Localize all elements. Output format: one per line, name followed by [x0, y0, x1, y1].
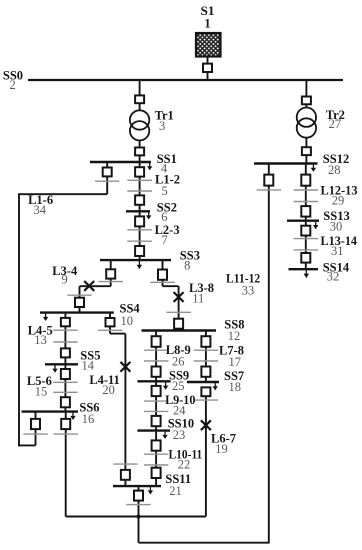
svg-text:33: 33	[242, 284, 255, 298]
line tick L6-7 b	[194, 399, 218, 401]
line tick L3-8 a	[150, 281, 175, 283]
wire L13-14	[305, 235, 307, 253]
switch L4-11 at SS11	[121, 470, 130, 480]
svg-text:23: 23	[173, 428, 186, 442]
wire L3-4 vertical	[79, 286, 81, 298]
wire L3-4 horizontal	[80, 285, 111, 287]
wire SS11 to L11-12	[138, 487, 140, 491]
wire to bus SS13	[305, 217, 307, 221]
wire L4-5	[64, 326, 66, 349]
switch Tr2 upper	[302, 97, 311, 105]
wire to Tr1	[139, 103, 141, 111]
switch L12-13 at SS12	[301, 175, 310, 186]
line tick L13-14 a	[294, 238, 319, 240]
svg-text:16: 16	[82, 412, 95, 426]
line tick L1-6 b	[23, 433, 48, 435]
svg-text:27: 27	[329, 117, 342, 131]
switch L6-7 at SS7	[201, 387, 210, 396]
svg-text:9: 9	[61, 273, 67, 287]
wire SS8 to L7-8	[205, 332, 207, 337]
wire SS1 to L1-2	[139, 163, 141, 168]
bus SS6	[22, 410, 79, 412]
wire SS12 to L12-13	[305, 165, 307, 176]
svg-text:18: 18	[228, 380, 241, 394]
svg-text:21: 21	[169, 484, 182, 498]
switch L5-6 at SS5	[61, 369, 70, 379]
switch L2-3 at SS3	[135, 246, 144, 256]
svg-text:32: 32	[327, 269, 340, 283]
line tick L2-3 b	[127, 240, 152, 242]
line tick L3-4 b	[67, 294, 92, 296]
wire L4-11 vertical	[124, 334, 126, 487]
bus SS3	[100, 259, 171, 261]
bus SS5	[45, 363, 78, 365]
load arrow SS5	[52, 365, 57, 372]
svg-text:12: 12	[228, 329, 241, 343]
svg-text:26: 26	[172, 355, 185, 369]
svg-text:29: 29	[332, 193, 345, 207]
switch L1-2 at SS1	[135, 167, 144, 176]
svg-text:28: 28	[328, 163, 341, 177]
wire SS10 to L10-11	[155, 432, 157, 441]
switch L9-10 at SS9	[152, 386, 161, 396]
bus SS14	[289, 268, 319, 270]
wire SS4 to L4-11	[109, 314, 111, 319]
bus SS13	[287, 219, 319, 221]
wire SS13 to L13-14	[305, 222, 307, 227]
svg-text:20: 20	[102, 383, 115, 397]
svg-text:11: 11	[192, 292, 204, 306]
line tick L3-8 b	[166, 311, 191, 313]
bus SS2	[126, 210, 150, 212]
svg-text:1: 1	[204, 17, 210, 31]
wire L6-7 down from SS6	[65, 429, 67, 516]
load arrow SS4	[43, 314, 48, 321]
switch L8-9 at SS9	[152, 367, 161, 377]
switch L13-14 at SS13	[301, 226, 310, 236]
wire switch to bus SS0	[207, 71, 209, 80]
switch L11-12 at SS12	[264, 175, 273, 186]
wire L4-11 horizontal	[110, 333, 125, 335]
line tick L7-8 a	[194, 349, 218, 351]
svg-text:17: 17	[228, 355, 241, 369]
wire L10-11	[155, 451, 157, 469]
line tick L8-9 a	[144, 349, 168, 351]
wire SS5 to L5-6	[64, 365, 66, 369]
svg-text:30: 30	[330, 219, 343, 233]
svg-text:7: 7	[161, 233, 167, 247]
line tick L6-7 a	[54, 433, 79, 435]
wire L1-6 left vertical	[18, 193, 20, 446]
wire S1 to switch	[207, 57, 209, 65]
wire SS4 to L4-5	[64, 314, 66, 319]
line tick L4-5 a	[53, 329, 77, 331]
switch L13-14 at SS14	[301, 253, 310, 263]
line tick L2-3 a	[127, 229, 152, 231]
switch L4-11 at SS4	[106, 318, 115, 326]
switch L4-5 at SS5	[61, 348, 70, 357]
switch L3-4 at SS4	[75, 298, 84, 307]
line tick L4-11 b	[113, 463, 138, 465]
line tick L1-2 b	[127, 190, 152, 192]
switch S1-SS0	[203, 64, 212, 72]
wire L1-6 up to SS6	[35, 413, 37, 446]
bus SS4	[40, 311, 114, 313]
line tick L4-5 b	[53, 341, 77, 343]
wire Tr2 to switch	[305, 138, 307, 148]
svg-text:3: 3	[159, 119, 165, 133]
load arrow SS11	[148, 487, 153, 494]
wire L1-6 horizontal bottom	[18, 444, 35, 446]
line tick L4-11 a	[98, 329, 122, 331]
wire L4-11 down	[109, 326, 111, 333]
switch L5-6 at SS6	[61, 397, 70, 407]
switch L3-4 at SS3	[106, 269, 115, 278]
load arrow SS1	[147, 163, 152, 170]
bus SS0	[28, 79, 343, 81]
wire to bus SS9	[155, 377, 157, 382]
svg-text:8: 8	[184, 258, 190, 272]
open switch X L3-8	[174, 292, 184, 302]
wire L3-8 horizontal	[163, 285, 179, 287]
switch L4-5 at SS4	[61, 318, 70, 326]
wire SS6 to L6-7	[65, 413, 67, 420]
svg-text:31: 31	[331, 244, 344, 258]
wire to bus SS14	[305, 263, 307, 270]
bus SS12	[254, 162, 318, 164]
wire to bus SS3	[139, 256, 141, 260]
wire L11-12 right vertical	[268, 185, 270, 544]
svg-text:6: 6	[161, 210, 167, 224]
switch L1-6 at SS1	[103, 168, 112, 177]
switch L10-11 at SS10	[152, 440, 161, 450]
wire SS3 to L3-8	[162, 261, 164, 270]
load arrow SS9	[163, 382, 168, 389]
wire L6-7 horizontal	[66, 516, 206, 518]
line tick L1-2 a	[127, 179, 152, 181]
wire switch to bus SS12	[305, 155, 307, 163]
open switch X L3-4	[84, 281, 94, 291]
svg-text:14: 14	[81, 358, 94, 372]
line tick L5-6 a	[53, 381, 77, 383]
line tick L9-10 a	[144, 400, 168, 402]
switch L2-3 at SS2	[135, 216, 144, 226]
load arrow SS12	[311, 165, 316, 172]
switch L12-13 at SS13	[301, 206, 310, 217]
load arrow SS13	[313, 222, 318, 230]
wire L1-2	[139, 177, 141, 196]
open switch X L4-11	[120, 362, 130, 372]
wire SS3 to L3-4	[110, 261, 112, 270]
open switch X L6-7	[201, 420, 211, 430]
svg-text:2: 2	[9, 78, 15, 92]
wire to bus SS2	[139, 205, 141, 212]
line tick L13-14 b	[294, 249, 319, 251]
wire switch to bus SS12	[268, 164, 270, 175]
svg-text:15: 15	[35, 384, 48, 398]
line tick L11-12 a	[126, 504, 151, 506]
bus SS7	[187, 381, 219, 383]
load arrow SS14	[304, 270, 309, 278]
svg-text:25: 25	[172, 379, 185, 393]
svg-text:24: 24	[173, 403, 186, 417]
load arrow SS10	[162, 432, 167, 439]
switch Tr1 upper	[135, 95, 144, 103]
wire L9-10	[155, 396, 157, 416]
switch Tr1 lower	[135, 148, 144, 156]
wire L5-6	[64, 379, 66, 398]
line tick L9-10 b	[144, 410, 168, 412]
switch L3-8 at SS3	[158, 270, 167, 280]
junction node SS6-SS7-SS11 lines	[136, 514, 140, 518]
wire L8-9	[155, 347, 157, 367]
wire SS9 to L9-10	[155, 382, 157, 386]
switch L7-8 at SS8	[201, 336, 210, 347]
wire L12-13	[305, 186, 307, 207]
switch L7-8 at SS7	[201, 367, 210, 377]
wire Tr1 to switch	[139, 141, 141, 149]
switch L1-2 at SS2	[135, 195, 144, 204]
bus SS1	[90, 161, 151, 163]
line tick L8-9 b	[144, 360, 168, 362]
switch L6-7 at SS6	[61, 419, 70, 429]
wire to bus SS5	[64, 357, 66, 364]
wire switch to bus SS1	[139, 155, 141, 162]
load arrow SS3	[137, 261, 142, 269]
load arrow SS6	[70, 413, 75, 420]
load arrow SS2	[146, 212, 151, 220]
transformer Tr1	[130, 110, 149, 140]
wire to bus SS4	[79, 307, 81, 313]
load arrow SS7	[213, 383, 218, 390]
line tick L5-6 b	[53, 391, 77, 393]
line tick L11-12 b	[257, 189, 282, 191]
wire L11-12 horizontal bottom	[139, 542, 269, 544]
line tick L12-13 b	[294, 201, 319, 203]
wire to bus SS6	[64, 407, 66, 411]
wire L11-12 down	[138, 501, 140, 543]
line tick L1-6 a	[95, 180, 119, 182]
switch L3-8 at SS8	[174, 319, 183, 329]
bus SS9	[137, 380, 170, 382]
switch L8-9 at SS8	[152, 336, 161, 347]
wire L6-7 up to SS7	[205, 396, 207, 517]
wire to Tr2	[305, 104, 307, 108]
transformer Tr2	[297, 108, 316, 138]
wire SS0 to Tr2	[305, 80, 307, 97]
bus SS10	[137, 429, 170, 431]
line tick L10-11 b	[144, 464, 168, 466]
line tick L7-8 b	[194, 360, 218, 362]
source S1 hatched box	[196, 33, 221, 57]
wire L3-4 down	[110, 279, 112, 287]
switch L1-6 at SS6	[31, 419, 40, 429]
wire L3-8 down	[162, 280, 164, 286]
wire L2-3	[139, 226, 141, 246]
svg-text:10: 10	[120, 314, 133, 328]
bus SS11	[113, 485, 161, 487]
svg-text:19: 19	[215, 442, 228, 456]
line tick L10-11 a	[144, 453, 168, 455]
switch Tr2 lower	[302, 147, 311, 155]
wire L1-6 down	[106, 176, 108, 194]
wire SS1 to L1-6 switch	[106, 163, 108, 168]
wire L7-8	[205, 347, 207, 367]
svg-text:13: 13	[34, 333, 47, 347]
line tick L3-4 a	[99, 281, 124, 283]
switch L10-11 at SS11	[152, 468, 161, 478]
wire to bus SS11	[155, 478, 157, 486]
svg-text:5: 5	[161, 184, 167, 198]
wire SS2 to L2-3	[139, 212, 141, 217]
line tick L12-13 a	[294, 189, 319, 191]
wire L1-6 horizontal top	[18, 193, 107, 195]
wire to bus SS7	[205, 377, 207, 382]
wire L3-8 vertical	[178, 286, 180, 330]
svg-text:34: 34	[33, 203, 46, 217]
wire SS0 to Tr1	[139, 80, 141, 96]
switch L11-12 at SS11	[134, 491, 143, 501]
svg-text:22: 22	[178, 458, 191, 472]
wire to bus SS10	[155, 426, 157, 430]
wire SS8 to L8-9	[155, 332, 157, 337]
bus SS8	[142, 329, 217, 331]
switch L9-10 at SS10	[152, 416, 161, 426]
